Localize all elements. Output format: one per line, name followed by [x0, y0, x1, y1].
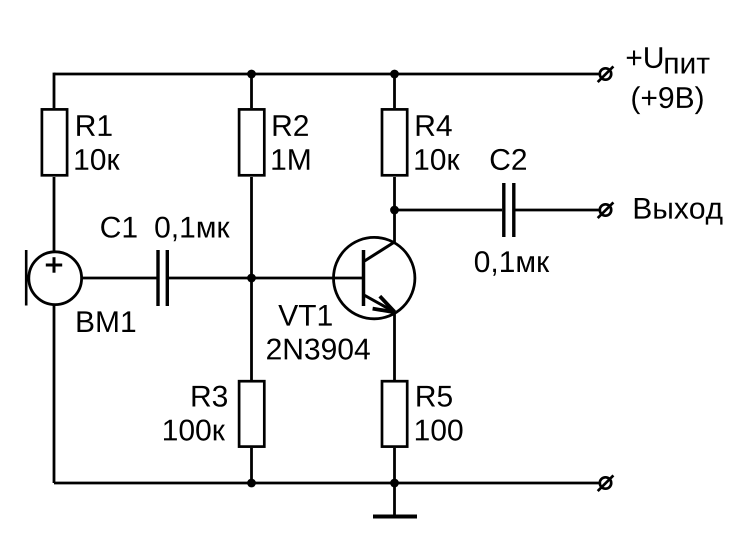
label C1: [101, 217, 136, 238]
terminal ground rail: [598, 475, 614, 491]
resistor R3: [239, 381, 264, 446]
label R5 value: [416, 420, 463, 441]
capacitor C1: [158, 250, 167, 306]
wire R4 to output node: [393, 177, 396, 210]
label R5: [417, 386, 452, 407]
label BM1: [78, 311, 136, 332]
wire R5 to bottom rail: [393, 448, 396, 483]
label C2: [491, 149, 526, 170]
terminal output: [598, 202, 614, 218]
wire C1 to base node: [169, 277, 252, 280]
wire base node to R3: [250, 278, 253, 380]
wire collector: [393, 210, 396, 242]
wire rail to R1: [53, 73, 56, 108]
wire R2 to base node: [250, 177, 253, 278]
label +Upit main: [627, 47, 662, 68]
wire emitter to R5: [393, 312, 396, 380]
node rail R4 junction: [390, 70, 399, 79]
node base junction: [247, 274, 256, 283]
resistor R2: [239, 109, 264, 175]
label C1 value: [155, 217, 229, 242]
label +Upit subscript: [665, 58, 709, 74]
wire BM1 to C1: [82, 277, 157, 280]
wire output node to C2: [395, 209, 503, 212]
node bottom rail R3 junction: [247, 479, 256, 488]
wire R3 to bottom rail: [250, 448, 253, 483]
label output Vyhod: [635, 198, 723, 225]
wire rail to R2: [250, 74, 253, 108]
terminal +Upit: [598, 66, 614, 82]
resistor R5: [382, 381, 407, 446]
label C2 value: [475, 251, 549, 276]
resistor R1: [42, 109, 67, 175]
node rail R2 junction: [247, 70, 256, 79]
label R4 value: [415, 149, 459, 170]
label R2 value: [272, 149, 309, 170]
wire top rail: [54, 73, 599, 76]
node bottom rail ground junction: [390, 479, 399, 488]
resistor R4: [382, 109, 407, 175]
wire rail to R4: [393, 74, 396, 108]
wire C2 to output terminal: [516, 209, 599, 212]
label R4: [417, 115, 452, 136]
wire R1 to BM1: [53, 177, 56, 252]
transistor VT1: [334, 237, 415, 318]
label R2: [274, 115, 308, 136]
ground: [373, 483, 417, 517]
label VT1: [278, 305, 332, 326]
label R1: [77, 115, 111, 136]
label R1 value: [75, 149, 119, 170]
wire BM1 to bottom rail: [53, 305, 56, 484]
label R3: [193, 386, 228, 407]
label VT1 type: [267, 339, 370, 360]
wire bottom rail: [54, 482, 599, 485]
capacitor C2: [504, 183, 514, 237]
wire base node to VT1: [252, 277, 364, 280]
microphone BM1: [26, 250, 81, 306]
node output junction: [390, 206, 399, 215]
label R3 value: [164, 420, 225, 441]
label supply voltage: [632, 86, 702, 114]
